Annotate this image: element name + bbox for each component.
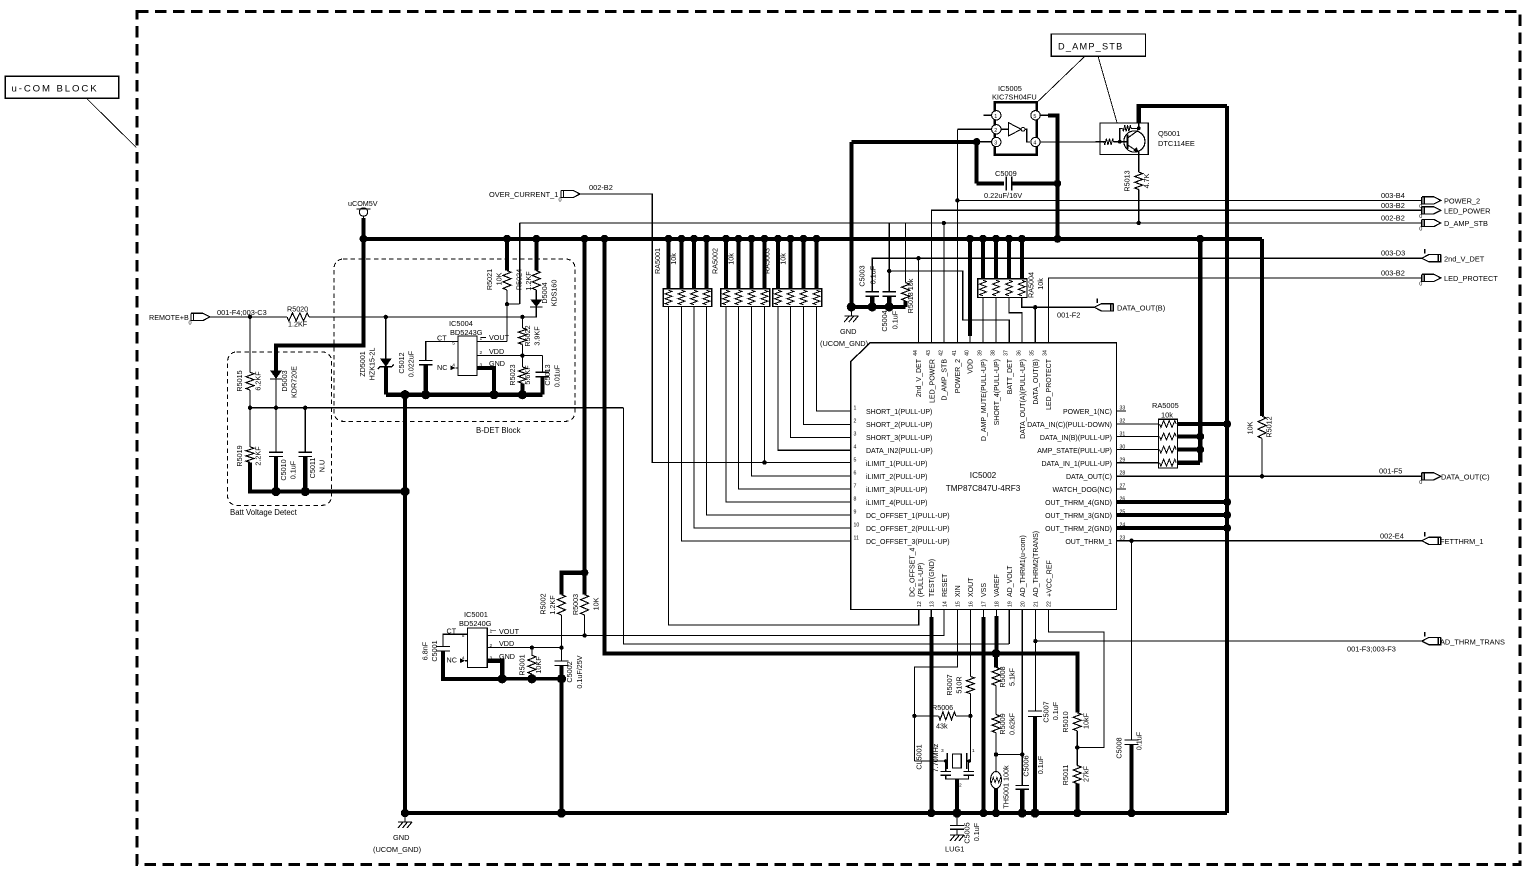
wire pin 30 to RA5005 R3 xyxy=(1117,449,1159,451)
svg-text:SHORT_2(PULL-UP): SHORT_2(PULL-UP) xyxy=(866,422,932,429)
svg-text:002-B2: 002-B2 xyxy=(589,183,613,192)
svg-text:iLIMIT_4(PULL-UP): iLIMIT_4(PULL-UP) xyxy=(866,500,927,507)
node +5V rail junction xyxy=(1196,235,1204,243)
svg-text:10k: 10k xyxy=(669,253,678,265)
svg-text:C5011: C5011 xyxy=(308,458,317,479)
capacitor C5009 0.22uF/16V xyxy=(975,142,979,184)
wire OUT_THRM_4 pin 26 to ground riser xyxy=(1117,500,1228,504)
svg-text:43: 43 xyxy=(926,350,932,356)
svg-text:C5005: C5005 xyxy=(963,822,972,843)
svg-text:KDR720E: KDR720E xyxy=(290,366,299,398)
svg-text:DATA_OUT(B): DATA_OUT(B) xyxy=(1117,304,1165,313)
ground symbol GND (UCOM_GND) bottom left xyxy=(404,813,406,822)
wire OUT_THRM_1 / FETTHRM net pin 23 xyxy=(1117,540,1422,542)
node C5004 branch junction xyxy=(887,269,891,273)
svg-text:39: 39 xyxy=(978,350,984,356)
B-DET Block dashed outline xyxy=(334,259,575,421)
pin GND of IC5004 xyxy=(477,368,494,395)
svg-text:VDD: VDD xyxy=(968,359,975,374)
svg-text:003-B4: 003-B4 xyxy=(1381,191,1405,200)
svg-text:20: 20 xyxy=(1020,601,1026,607)
resistor R5011 27kF xyxy=(1073,766,1081,784)
svg-text:0: 0 xyxy=(1419,480,1422,486)
svg-text:OUT_THRM_1: OUT_THRM_1 xyxy=(1065,539,1112,546)
svg-text:SHORT_1(PULL-UP): SHORT_1(PULL-UP) xyxy=(866,409,932,416)
svg-text:0.1uF: 0.1uF xyxy=(972,822,981,841)
svg-text:VAREF: VAREF xyxy=(994,574,1001,597)
svg-text:IC5004: IC5004 xyxy=(449,319,473,328)
wire BATT_DET to pin 37 xyxy=(889,271,1009,343)
svg-text:DTC114EE: DTC114EE xyxy=(1158,139,1195,148)
resistor R5007 510R xyxy=(966,676,974,693)
svg-text:OUT_THRM_4(GND): OUT_THRM_4(GND) xyxy=(1045,500,1112,507)
svg-text:uCOM5V: uCOM5V xyxy=(348,199,378,208)
regulator IC5004 BD5243G xyxy=(458,336,477,375)
node +5V rail junction xyxy=(601,235,609,243)
wire RA5003 R3 to pin 2 xyxy=(804,306,851,424)
wire C5008 riser xyxy=(1131,541,1133,740)
svg-text:D_AMP_MUTE(PULL-UP): D_AMP_MUTE(PULL-UP) xyxy=(981,359,988,441)
svg-text:GND: GND xyxy=(489,359,505,368)
resistor R5008 5.1kF xyxy=(994,653,998,667)
wire main left ground drop xyxy=(403,395,407,813)
svg-text:C5004: C5004 xyxy=(880,310,889,331)
resistor R5003 10K xyxy=(583,239,587,595)
svg-text:22: 22 xyxy=(1047,601,1053,607)
node C5009/pin5 riser junction xyxy=(1054,180,1062,188)
svg-text:44: 44 xyxy=(913,350,919,356)
svg-text:C5006: C5006 xyxy=(1022,755,1031,776)
svg-text:003-B2: 003-B2 xyxy=(1381,269,1405,278)
resistor R5013 4.7K xyxy=(1135,172,1143,189)
resistor R5021 10K xyxy=(505,239,509,271)
svg-text:RA5004: RA5004 xyxy=(1027,272,1036,298)
wire pin44 drop xyxy=(917,258,919,343)
svg-text:VSS: VSS xyxy=(981,583,988,597)
capacitor C5005 0.1uF / LUG1 xyxy=(956,813,958,825)
wire B-DET ground rail xyxy=(386,393,543,397)
resistor R5019 2.2KF xyxy=(249,408,251,447)
resistor R5015 6.2KF xyxy=(249,317,251,372)
svg-text:R5024: R5024 xyxy=(515,269,524,290)
svg-text:0.1uF: 0.1uF xyxy=(1051,701,1060,720)
svg-text:RA5002: RA5002 xyxy=(711,248,720,274)
svg-text:0.62kF: 0.62kF xyxy=(1008,712,1017,735)
wire LED_PROTECT net xyxy=(1049,278,1422,343)
svg-text:1.2KF: 1.2KF xyxy=(524,271,533,291)
svg-text:0.1uF/25V: 0.1uF/25V xyxy=(575,655,584,688)
svg-text:+VCC_REF: +VCC_REF xyxy=(1046,560,1053,597)
wire pin 15 XIN route xyxy=(914,610,957,762)
node bottom rail junctions xyxy=(401,809,409,817)
svg-text:4: 4 xyxy=(1033,141,1036,147)
wire pin 22 route to R5010/R5011 node xyxy=(1049,610,1104,748)
svg-text:5.1kF: 5.1kF xyxy=(1008,667,1017,686)
svg-text:DATA_IN2(PULL-UP): DATA_IN2(PULL-UP) xyxy=(866,448,933,455)
svg-text:R5013: R5013 xyxy=(1123,170,1132,191)
wire REMOTE+B line xyxy=(210,316,287,318)
svg-text:DC_OFFSET_3(PULL-UP): DC_OFFSET_3(PULL-UP) xyxy=(866,539,950,546)
svg-text:R5001: R5001 xyxy=(518,654,527,675)
wire BATT_DET branch via C5004 xyxy=(888,223,890,292)
svg-text:VDD: VDD xyxy=(489,347,504,356)
node C5008 junction on pin 23 line xyxy=(1129,539,1133,543)
svg-text:R5007: R5007 xyxy=(945,674,954,695)
svg-text:u-COM BLOCK: u-COM BLOCK xyxy=(12,84,99,95)
node batt gnd junctions xyxy=(271,487,280,496)
wire pin42 drop xyxy=(943,223,945,343)
svg-text:TMP87C847U-4RF3: TMP87C847U-4RF3 xyxy=(946,484,1021,493)
svg-text:D_AMP_STB: D_AMP_STB xyxy=(1444,219,1488,228)
svg-text:3.9KF: 3.9KF xyxy=(533,326,542,346)
wire Q5001 emitter to R5013 xyxy=(1138,152,1140,172)
pin VDD of IC5004 xyxy=(477,355,542,357)
wire Q5001 collector to ground riser xyxy=(1138,123,1140,128)
wire RA5001 R2 to pin 11 xyxy=(682,306,851,541)
svg-text:28: 28 xyxy=(1120,471,1126,477)
svg-text:DATA_OUT(C): DATA_OUT(C) xyxy=(1066,474,1112,481)
wire POWER_2 net xyxy=(957,199,1421,201)
svg-text:R5015: R5015 xyxy=(235,370,244,391)
wire battery sense node xyxy=(250,407,624,409)
pin 27 stub xyxy=(1117,488,1127,490)
node B-DET gnd junctions xyxy=(400,390,409,399)
svg-text:R5020: R5020 xyxy=(287,305,308,314)
svg-text:17: 17 xyxy=(982,601,988,607)
svg-text:B-DET Block: B-DET Block xyxy=(476,426,521,435)
svg-text:002-B2: 002-B2 xyxy=(1381,214,1405,223)
node R5021/VOUT junction xyxy=(505,302,509,306)
svg-text:0: 0 xyxy=(1419,227,1422,233)
capacitor C5007 0.1uF xyxy=(1028,710,1042,712)
wire D5004 to REMOTE+B line xyxy=(522,307,536,317)
svg-text:12: 12 xyxy=(917,601,923,607)
svg-text:GND: GND xyxy=(840,327,856,336)
svg-text:0.1uF: 0.1uF xyxy=(891,310,900,329)
capacitor C5008 0.1uF xyxy=(1125,739,1139,741)
node R5003 on VOUT line xyxy=(582,633,586,637)
svg-text:4.7K: 4.7K xyxy=(1142,173,1151,188)
node ZD5001 junction xyxy=(384,315,388,319)
node +5V rail junction xyxy=(979,235,987,243)
node +5V rail junction xyxy=(722,235,730,243)
wire RA5005 R2/R3/R4 common xyxy=(1177,434,1200,438)
svg-text:D_AMP_STB: D_AMP_STB xyxy=(942,359,949,401)
wire RA5003 R2 to pin 3 xyxy=(791,306,851,437)
svg-text:DATA_IN_1(PULL-UP): DATA_IN_1(PULL-UP) xyxy=(1041,461,1112,468)
wire IC5005 pin5 to +5V rail xyxy=(1048,115,1057,239)
svg-text:POWER_1(NC): POWER_1(NC) xyxy=(1063,409,1112,416)
svg-text:KDS160: KDS160 xyxy=(550,280,559,307)
svg-text:Batt Voltage Detect: Batt Voltage Detect xyxy=(230,508,298,517)
node VAREF junction pin18/R5008 xyxy=(992,649,1001,658)
pin 2 of IC5005 xyxy=(992,125,1001,134)
connector DATA_OUT(B) (001-F2) xyxy=(1094,304,1113,311)
svg-text:R5023: R5023 xyxy=(508,364,517,385)
resistor R5012 10K xyxy=(1258,416,1266,438)
wire RA5003 R4 to pin 1 xyxy=(817,306,851,411)
svg-text:2.2KF: 2.2KF xyxy=(254,446,263,466)
node R5022 junction xyxy=(520,315,524,319)
svg-text:R5002: R5002 xyxy=(539,593,548,614)
svg-text:2: 2 xyxy=(959,783,962,789)
node R5013 on D_AMP_STB line xyxy=(1137,221,1141,225)
svg-text:IC5001: IC5001 xyxy=(464,610,488,619)
wire AD_THRM2 pin 21 net xyxy=(1034,610,1036,711)
svg-text:5: 5 xyxy=(1033,114,1036,120)
svg-text:iLIMIT_1(PULL-UP): iLIMIT_1(PULL-UP) xyxy=(866,461,927,468)
wire +5V rail drop to R5012 xyxy=(1260,239,1264,416)
ground symbol GND (UCOM_GND) mid xyxy=(850,307,852,316)
svg-text:HZK15-2L: HZK15-2L xyxy=(368,348,377,381)
wire RA5004 R3 to pin 36 (jog) xyxy=(1009,297,1022,342)
svg-text:21: 21 xyxy=(1034,601,1040,607)
label box D_AMP_STB xyxy=(1051,34,1145,56)
wire 2nd_V_DET net xyxy=(872,258,1422,292)
svg-text:DC_OFFSET_2(PULL-UP): DC_OFFSET_2(PULL-UP) xyxy=(866,526,950,533)
svg-text:DATA_OUT(B): DATA_OUT(B) xyxy=(1033,359,1040,405)
capacitor C5006 0.1uF xyxy=(1015,785,1029,787)
svg-text:40: 40 xyxy=(964,350,970,356)
svg-text:Q5001: Q5001 xyxy=(1158,129,1180,138)
svg-text:0.1uF: 0.1uF xyxy=(869,265,878,284)
svg-text:19: 19 xyxy=(1007,601,1013,607)
pin 4 of IC5005 xyxy=(1031,137,1040,146)
svg-text:001-F4;003-C3: 001-F4;003-C3 xyxy=(217,308,267,317)
svg-text:WATCH_DOG(NC): WATCH_DOG(NC) xyxy=(1053,487,1113,494)
wire pin 19 AD_VOLT drop xyxy=(1008,610,1010,645)
resistor R5022 3.9KF xyxy=(518,328,526,344)
svg-text:AD_THRM2(TRANS): AD_THRM2(TRANS) xyxy=(1033,531,1040,597)
svg-text:1: 1 xyxy=(480,336,483,342)
capacitor C5012 0.022uF xyxy=(426,342,458,361)
svg-text:2: 2 xyxy=(994,128,997,134)
svg-text:DATA_IN(C)(PULL-DOWN): DATA_IN(C)(PULL-DOWN) xyxy=(1027,422,1112,429)
wire RA5004 R2 to pin 38 xyxy=(995,297,997,342)
node +5V rail junction xyxy=(787,235,795,243)
svg-text:BD5240G: BD5240G xyxy=(459,619,492,628)
wire VOUT line to pin 14 RESET xyxy=(487,610,944,636)
svg-text:3: 3 xyxy=(994,141,997,147)
svg-text:10K: 10K xyxy=(1246,421,1255,434)
wire IC5005 pin3 thick to left xyxy=(851,140,976,144)
wire +5V drop x=1200 xyxy=(1198,239,1202,463)
capacitor C5003 0.1uF xyxy=(865,291,879,293)
svg-text:C5002: C5002 xyxy=(565,661,574,682)
svg-text:R5019: R5019 xyxy=(235,445,244,466)
Batt Voltage Detect dashed outline xyxy=(228,352,332,505)
svg-text:RESET: RESET xyxy=(942,573,949,597)
svg-text:11: 11 xyxy=(854,536,859,542)
svg-text:0.1uF: 0.1uF xyxy=(289,460,298,479)
svg-text:(PULL-UP): (PULL-UP) xyxy=(918,563,925,597)
node +5V rail junction xyxy=(532,235,540,243)
zener ZD5001 HZK15-2L xyxy=(385,317,387,359)
wire RA5001 R4 to pin 9 xyxy=(707,306,851,515)
resistor R5020 1.2KF xyxy=(287,313,309,321)
wire RA5002 R1 to pin 8 xyxy=(726,306,851,502)
svg-text:0: 0 xyxy=(189,320,192,326)
wire IC5001 local gnd rail xyxy=(443,677,562,681)
wire RA5002 R4 to pin 5 line xyxy=(764,306,766,462)
svg-text:0.022uF: 0.022uF xyxy=(407,350,416,377)
svg-text:REMOTE+B: REMOTE+B xyxy=(149,313,189,322)
wire pin35 drop xyxy=(1034,307,1036,342)
capacitor C5010 0.1uF xyxy=(275,408,277,452)
microcontroller IC5002 TMP87C847U-4RF3 xyxy=(851,343,1117,610)
svg-text:18: 18 xyxy=(995,601,1001,607)
svg-text:OVER_CURRENT_1: OVER_CURRENT_1 xyxy=(489,190,558,199)
svg-text:10KF: 10KF xyxy=(534,656,543,674)
svg-text:BATT_DET: BATT_DET xyxy=(1007,358,1014,394)
wire ZD5001 to B-DET ground rail xyxy=(384,367,388,395)
svg-text:10K: 10K xyxy=(495,272,504,285)
capacitor C5002 0.1uF/25V xyxy=(559,645,563,649)
svg-text:TEST(GND): TEST(GND) xyxy=(929,559,936,597)
svg-text:LED_POWER: LED_POWER xyxy=(1444,207,1490,216)
svg-text:0.1uF: 0.1uF xyxy=(1135,731,1144,750)
svg-text:RA5005: RA5005 xyxy=(1152,401,1179,410)
svg-text:10k: 10k xyxy=(1161,411,1173,420)
node +5V rail junction xyxy=(800,235,808,243)
svg-text:R5010: R5010 xyxy=(1061,711,1070,732)
svg-text:C5009: C5009 xyxy=(995,169,1017,178)
wire junction to D_AMP_STB riser xyxy=(507,303,520,305)
svg-text:RA5001: RA5001 xyxy=(653,248,662,274)
svg-text:10K: 10K xyxy=(592,597,601,610)
resistor R5023 5.6KF xyxy=(521,356,523,367)
node +5V rail junction xyxy=(735,235,743,243)
svg-text:003-B2: 003-B2 xyxy=(1381,201,1405,210)
resistor R5006 43k xyxy=(914,715,938,717)
wire pin 29 to RA5005 R4 xyxy=(1117,462,1159,464)
svg-text:0.01uF: 0.01uF xyxy=(553,364,562,387)
resistor array RA5001 xyxy=(663,289,711,307)
svg-text:1: 1 xyxy=(854,406,857,412)
node pin42 junction xyxy=(942,221,946,225)
svg-text:GND: GND xyxy=(393,833,409,842)
node pin3/C5009 junction xyxy=(973,138,981,146)
svg-text:(UCOM_GND): (UCOM_GND) xyxy=(820,339,868,348)
svg-text:LED_PROTECT: LED_PROTECT xyxy=(1444,274,1498,283)
svg-text:16: 16 xyxy=(969,601,975,607)
svg-text:IC5002: IC5002 xyxy=(970,471,997,480)
svg-text:0.1uF: 0.1uF xyxy=(1036,755,1045,774)
svg-text:C5001: C5001 xyxy=(430,640,439,661)
resistor R5024 1.2KF xyxy=(534,239,538,271)
svg-text:1.2KF: 1.2KF xyxy=(548,595,557,615)
wire pin 20 to TH5001 node xyxy=(1021,610,1023,786)
svg-text:10k: 10k xyxy=(1036,278,1045,290)
wire local gnd rail under C5003 xyxy=(849,142,853,307)
svg-text:RA5003: RA5003 xyxy=(763,248,772,274)
thermistor TH5001 100k xyxy=(995,755,997,773)
svg-text:43k: 43k xyxy=(936,722,948,731)
svg-text:6.2KF: 6.2KF xyxy=(254,371,263,391)
node +5V rail junction at uCOM5V xyxy=(360,235,368,243)
svg-text:C5010: C5010 xyxy=(279,459,288,480)
svg-text:2nd_V_DET: 2nd_V_DET xyxy=(916,358,923,397)
svg-text:0.22uF/16V: 0.22uF/16V xyxy=(984,191,1022,200)
svg-text:10k: 10k xyxy=(779,253,788,265)
node +5V rail junction xyxy=(1005,235,1013,243)
wire IC5005 pin2 to POWER_2 net xyxy=(957,128,991,130)
wire RA5003 R1 to pin 4 xyxy=(778,306,851,450)
node R5010/R5011 junction xyxy=(1075,745,1079,749)
diode D5003 KDR720E xyxy=(270,371,282,379)
svg-text:DC_OFFSET_4: DC_OFFSET_4 xyxy=(910,547,917,597)
svg-text:NC: NC xyxy=(447,656,457,665)
node VDD/R5022/R5023 junction xyxy=(520,353,524,357)
svg-text:27kF: 27kF xyxy=(1082,765,1091,782)
svg-text:KIC7SH04FU: KIC7SH04FU xyxy=(992,93,1037,102)
svg-text:10k: 10k xyxy=(727,253,736,265)
node +5V rail junction xyxy=(761,235,769,243)
capacitor C5013 0.01uF xyxy=(541,356,543,373)
svg-text:001-F3;003-F3: 001-F3;003-F3 xyxy=(1347,645,1396,654)
svg-text:13: 13 xyxy=(930,601,936,607)
wire RA5004 R4 to DATA_OUT(B) line xyxy=(1022,297,1095,307)
svg-text:ZD5001: ZD5001 xyxy=(358,351,367,377)
svg-text:R5011: R5011 xyxy=(1061,765,1070,786)
wire pin 32 to RA5005 R1 xyxy=(1117,423,1159,425)
wire D_AMP_STB net xyxy=(520,222,1422,224)
svg-text:4: 4 xyxy=(462,655,465,661)
svg-text:14: 14 xyxy=(942,601,948,607)
svg-text:iLIMIT_2(PULL-UP): iLIMIT_2(PULL-UP) xyxy=(866,474,927,481)
svg-text:R5003: R5003 xyxy=(571,594,580,615)
node POWER_2 junction xyxy=(955,198,959,202)
svg-text:CL5001: CL5001 xyxy=(915,744,924,769)
svg-text:0: 0 xyxy=(559,198,562,204)
svg-text:36: 36 xyxy=(1017,350,1023,356)
node +5V rail junction xyxy=(503,235,511,243)
svg-text:15: 15 xyxy=(956,601,962,607)
svg-text:4: 4 xyxy=(452,363,455,369)
node REMOTE+B/R5015 junction xyxy=(248,315,252,319)
leader line from title box to frame xyxy=(86,98,136,147)
wire R5019 to batt gnd rail xyxy=(250,462,405,491)
svg-text:D5004: D5004 xyxy=(540,282,549,303)
svg-text:SHORT_3(PULL-UP): SHORT_3(PULL-UP) xyxy=(866,435,932,442)
svg-text:35: 35 xyxy=(1030,350,1036,356)
svg-text:C5012: C5012 xyxy=(397,352,406,373)
node +5V rail junction xyxy=(813,235,821,243)
node RA5002 R4 on pin5 line xyxy=(762,460,766,464)
wire right ground riser xyxy=(1225,106,1229,813)
svg-text:R5021: R5021 xyxy=(485,269,494,290)
svg-text:R5006: R5006 xyxy=(932,703,953,712)
svg-text:6.8nF: 6.8nF xyxy=(421,641,430,660)
node IC5001 gnd rail junctions xyxy=(498,674,507,683)
svg-text:C5013: C5013 xyxy=(543,364,552,385)
leader lines from D_AMP_STB label xyxy=(1037,56,1085,102)
wire R5021 bottom xyxy=(506,290,508,304)
svg-text:3: 3 xyxy=(854,432,857,438)
svg-text:VOUT: VOUT xyxy=(499,627,520,636)
wire pin 13 TEST drop xyxy=(930,610,932,618)
svg-text:(UCOM_GND): (UCOM_GND) xyxy=(373,845,421,854)
svg-text:10: 10 xyxy=(854,523,860,529)
svg-text:R5008: R5008 xyxy=(998,666,1007,687)
wire RA5002 R2 to pin 7 xyxy=(739,306,851,489)
node pin35 junction on DATA_OUT(B) xyxy=(1033,305,1037,309)
svg-text:2: 2 xyxy=(480,350,483,356)
wire RA5001 R3 to pin 10 xyxy=(694,306,851,528)
wire pin 16 XOUT to R5007 xyxy=(969,610,971,677)
wire resonator center pin to ground rail xyxy=(955,779,959,813)
svg-text:VOUT: VOUT xyxy=(489,333,510,342)
